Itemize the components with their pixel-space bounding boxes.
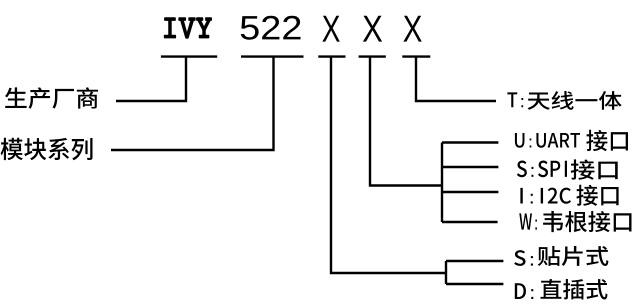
label D:直插式 xyxy=(515,283,533,299)
label T:天线一体 xyxy=(507,92,523,107)
wire: branch to U:UART接口 xyxy=(442,141,498,143)
wire: underline bar below 522 xyxy=(241,55,304,57)
label I:I2C接口 xyxy=(520,188,571,204)
label W:韦根接口 xyxy=(519,213,537,229)
wire: underline bar below X3 xyxy=(402,55,430,57)
label S:SPI接口 xyxy=(517,160,567,177)
wire: branch to D:直插式 xyxy=(446,283,503,285)
wire: branch to W:韦根接口 xyxy=(442,221,498,223)
wire: IVY bar down to 生产厂商 label xyxy=(116,57,186,101)
label S:贴片式 xyxy=(514,250,533,266)
wire: branch to S:SPI接口 xyxy=(442,166,498,168)
wire: X1 bar down then right to package fan-out xyxy=(331,57,446,273)
wire: X3 bar down then right to T:天线一体 label xyxy=(416,57,496,101)
label U:UART接口 xyxy=(515,133,580,148)
wire: branch to S:贴片式 xyxy=(446,260,503,262)
text X (package digit) xyxy=(322,16,339,42)
wire: branch to I:I2C接口 xyxy=(442,191,498,193)
wire: X2 bar down then right to interface fan-out xyxy=(370,57,442,186)
text X (interface digit) xyxy=(363,16,382,42)
wire: 522 bar down to 模块系列 label xyxy=(111,57,274,150)
text IVY (manufacturer code) xyxy=(164,17,212,39)
label 模块系列 (module series) xyxy=(1,138,93,160)
text X (antenna digit) xyxy=(403,16,421,42)
wire: package fan-out spine xyxy=(445,261,447,284)
wire: underline bar below X1 xyxy=(318,55,345,57)
wire: interface fan-out spine xyxy=(441,143,443,223)
wire: underline bar below X2 xyxy=(359,55,386,57)
text 522 (series code) xyxy=(241,16,301,40)
wire: underline bar below IVY xyxy=(161,55,217,57)
label 生产厂商 (manufacturer) xyxy=(5,87,98,109)
